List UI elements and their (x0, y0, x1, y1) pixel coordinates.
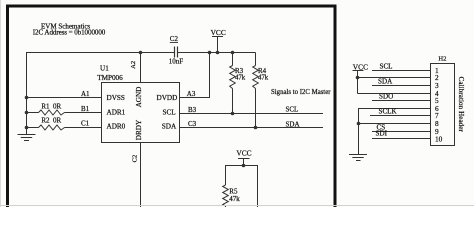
junction dot R4 bottom on C3 (254, 126, 258, 130)
resistor R3 (230, 53, 246, 114)
svg-text:DVDD: DVDD (157, 94, 178, 102)
svg-text:C2: C2 (170, 35, 179, 43)
sheet frame (6, 5, 337, 208)
svg-text:SDO: SDO (379, 92, 393, 100)
junction dot C1 on left rail (25, 126, 29, 130)
svg-text:ADR1: ADR1 (107, 109, 126, 117)
resistor R1 (wire B1) (27, 103, 102, 116)
power VCC symbol (R5 pull-up) (236, 149, 251, 166)
svg-text:C1: C1 (81, 119, 90, 127)
junction dot VCC stem on rail (216, 51, 220, 55)
svg-text:AGND: AGND (135, 87, 143, 108)
wire GND rail (header) (358, 109, 360, 155)
svg-text:Calibration Header: Calibration Header (457, 77, 465, 133)
power VCC symbol (header) (353, 63, 369, 94)
svg-text:SDA: SDA (162, 123, 177, 131)
wire VCC top rail (left of C2) (27, 52, 175, 54)
net label CS with overline (header) (377, 123, 386, 131)
svg-text:SDA: SDA (378, 77, 393, 85)
svg-text:ADR0: ADR0 (107, 123, 126, 131)
svg-text:U1: U1 (100, 64, 109, 72)
wire A3 (DVDD to rail) (180, 53, 210, 98)
junction dot AGND riser on rail (139, 51, 143, 55)
wire header pin4 VCC (358, 93, 431, 95)
svg-text:0R: 0R (53, 103, 62, 111)
junction dot A1 on left rail (25, 96, 29, 100)
svg-text:10: 10 (435, 134, 443, 143)
svg-text:A1: A1 (81, 90, 90, 98)
resistor R5 (223, 165, 241, 207)
wire left vertical rail (26, 52, 28, 135)
junction dot A3 riser on rail (208, 51, 212, 55)
svg-text:DVSS: DVSS (107, 94, 125, 102)
wire header pin9 CS (372, 131, 431, 133)
capacitor C2 (169, 35, 184, 65)
wire A1 (27, 97, 102, 99)
svg-text:0R: 0R (53, 116, 62, 124)
connector H2 calibration header (431, 56, 455, 146)
wire header pin8 GND (358, 123, 431, 125)
wire header pin3 SDA (372, 85, 431, 87)
wire header pin7 SCLK (370, 115, 431, 117)
wire R5 top node (226, 165, 258, 167)
svg-text:R2: R2 (41, 116, 50, 124)
power VCC symbol on top rail (211, 28, 226, 52)
wire C3 / SDA (180, 127, 324, 129)
svg-text:B3: B3 (188, 106, 197, 114)
note EVM Schematics / I2C Address (33, 23, 106, 37)
svg-text:Signals to I2C Master: Signals to I2C Master (271, 89, 331, 96)
svg-text:VCC: VCC (236, 149, 251, 158)
resistor R2 (wire C1) (27, 116, 102, 130)
wire B3 / SCL (180, 113, 324, 115)
junction dot B1 on left rail (25, 111, 29, 115)
svg-text:H2: H2 (438, 56, 446, 63)
wire header pin2 VCC (358, 77, 431, 79)
svg-text:SCL: SCL (286, 106, 299, 114)
ground symbol left rail (18, 135, 36, 141)
svg-text:A3: A3 (187, 90, 196, 98)
svg-text:47k: 47k (229, 195, 240, 203)
wire header pin10 SDI (372, 138, 431, 140)
resistor R4 (253, 53, 269, 128)
junction dot R5 top node (242, 164, 246, 168)
ground symbol (header) (349, 155, 367, 161)
wire R5 right leg (to DRDY net below) (257, 165, 259, 207)
svg-text:VCC: VCC (211, 28, 226, 37)
IC U1 TMP006 (97, 64, 179, 142)
junction dot GND rail pin8 (357, 122, 361, 126)
wire AGND riser (140, 53, 142, 83)
svg-text:I2C Address = 0b1000000: I2C Address = 0b1000000 (33, 29, 106, 37)
svg-text:47k: 47k (258, 75, 269, 82)
svg-text:B1: B1 (81, 105, 90, 113)
junction dot R3 top on rail (231, 51, 235, 55)
svg-text:SDI: SDI (376, 129, 388, 137)
junction dot R3 bottom on B3 (231, 112, 235, 116)
svg-text:C3: C3 (188, 120, 197, 128)
wire header pin6 GND (358, 108, 431, 110)
svg-text:TMP006: TMP006 (97, 74, 123, 82)
svg-text:DRDY: DRDY (135, 119, 143, 140)
window edge artifacts (0, 205, 474, 207)
svg-text:SDA: SDA (286, 120, 300, 128)
svg-text:A2: A2 (130, 61, 137, 69)
wire header pin5 SDO (372, 100, 431, 102)
svg-text:10nF: 10nF (169, 57, 184, 65)
svg-text:SCL: SCL (163, 109, 176, 117)
svg-text:C2: C2 (132, 155, 139, 163)
junction dot VCC stem pin2 (356, 76, 360, 80)
wire VCC top rail (right of C2) (178, 52, 256, 54)
svg-text:SCLK: SCLK (379, 107, 398, 115)
svg-text:47k: 47k (235, 75, 246, 82)
svg-text:SCL: SCL (380, 62, 393, 70)
svg-text:R1: R1 (41, 103, 50, 111)
wire DRDY drop (140, 143, 142, 208)
wire header pin1 SCL (372, 70, 431, 72)
